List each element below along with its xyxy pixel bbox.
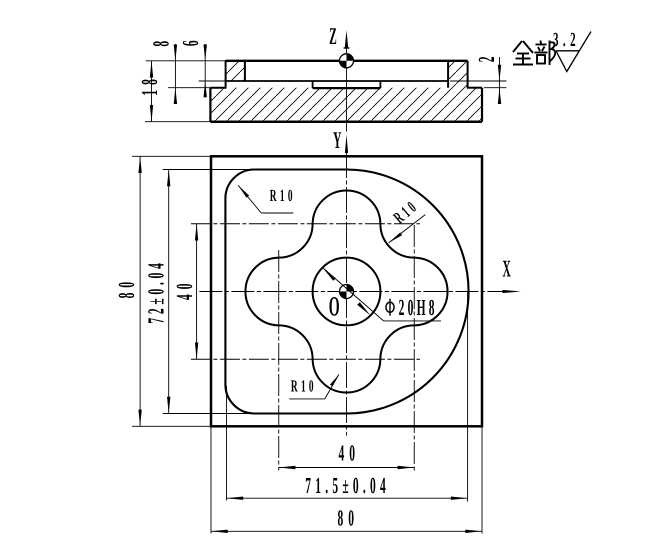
lobe centerline horizontal top xyxy=(191,223,420,225)
hatch left rim xyxy=(226,61,245,81)
svg-text:Y: Y xyxy=(333,128,341,154)
phi20 diameter line xyxy=(323,268,384,321)
bottom ext line contour left xyxy=(226,386,228,501)
base top right xyxy=(467,87,482,89)
svg-text:2: 2 xyxy=(474,57,499,63)
left ext line square bottom xyxy=(132,425,212,427)
surface finish note 全部 3.2 xyxy=(513,29,591,72)
R10 label bottom xyxy=(289,375,339,399)
dimension 8 line xyxy=(174,44,176,101)
base left edge xyxy=(209,88,211,122)
left ext line contour top xyxy=(163,169,256,171)
base right edge xyxy=(481,88,483,122)
outer contour xyxy=(225,169,468,413)
rim left inner edge xyxy=(244,61,246,81)
svg-text:72±0.04: 72±0.04 xyxy=(143,259,168,323)
bottom ext line square right xyxy=(481,427,483,534)
svg-text:8: 8 xyxy=(148,41,173,47)
Z axis arrow xyxy=(345,30,349,48)
svg-text:3.2: 3.2 xyxy=(553,29,580,51)
Y axis centerline xyxy=(346,152,348,436)
R10 label top-right rotated xyxy=(389,196,426,243)
hatch right rim xyxy=(448,61,468,88)
dimension 18 line xyxy=(151,61,153,122)
recess left step xyxy=(312,81,314,88)
phi20H8 leader and text xyxy=(384,320,441,322)
section extension line cavity floor xyxy=(199,80,227,82)
section top surface xyxy=(225,60,467,62)
Z axis centerline xyxy=(346,48,348,132)
section extension line bottom xyxy=(145,121,210,123)
dimension 2 line xyxy=(499,57,501,104)
svg-text:Z: Z xyxy=(329,24,337,50)
svg-text:R10: R10 xyxy=(291,377,317,396)
bottom ext line square left xyxy=(210,427,212,534)
char 全 xyxy=(513,41,533,65)
section extension line top xyxy=(146,60,226,62)
hatch base block xyxy=(210,88,482,122)
svg-text:O: O xyxy=(329,291,340,322)
base bottom xyxy=(210,120,482,123)
circle phi20H8 xyxy=(313,258,381,326)
rim right outer edge xyxy=(467,61,469,88)
Y axis arrow xyxy=(345,135,348,153)
recess right step xyxy=(379,81,381,88)
svg-text:40: 40 xyxy=(172,279,197,301)
dimension 6 line xyxy=(204,44,206,98)
svg-text:X: X xyxy=(502,256,511,282)
clover boss contour xyxy=(245,190,447,392)
svg-text:18: 18 xyxy=(137,74,162,96)
recess bottom xyxy=(313,87,381,89)
X axis arrow xyxy=(503,290,522,293)
rim right inner edge xyxy=(447,61,449,88)
origin symbol plan xyxy=(340,285,354,299)
dimension 2 ext lines right xyxy=(450,80,507,82)
svg-text:71.5±0.04: 71.5±0.04 xyxy=(305,473,390,498)
svg-text:20H8: 20H8 xyxy=(399,295,438,320)
cavity floor line xyxy=(226,80,448,82)
dimension 40 left xyxy=(172,224,199,360)
origin symbol section xyxy=(340,54,354,68)
svg-text:6: 6 xyxy=(178,40,203,46)
char 部 xyxy=(535,41,556,66)
lobe centerline horizontal bottom xyxy=(191,358,420,360)
left ext line contour bottom xyxy=(163,413,251,415)
dimension 80 left xyxy=(114,156,142,426)
svg-text:R10: R10 xyxy=(270,186,296,205)
dimension 71.5±0.04 bottom xyxy=(227,473,468,500)
bottom ext line contour right xyxy=(467,292,469,502)
base top left xyxy=(210,87,226,89)
lobe centerline vertical right xyxy=(413,225,415,471)
R10 label top-left xyxy=(238,185,296,213)
dimension 80 bottom xyxy=(211,506,482,534)
left ext line square top xyxy=(132,155,212,157)
svg-text:80: 80 xyxy=(114,277,139,299)
plate square xyxy=(211,156,482,426)
roughness symbol xyxy=(556,32,591,72)
dimension 40 bottom xyxy=(279,441,415,470)
section extension line base top xyxy=(168,87,210,89)
svg-text:40: 40 xyxy=(338,441,360,466)
svg-text:80: 80 xyxy=(338,506,360,531)
rim left outer edge xyxy=(225,61,227,88)
lobe centerline vertical left xyxy=(278,250,280,471)
X axis centerline xyxy=(199,291,503,293)
dimension 72±0.04 left xyxy=(143,170,170,414)
